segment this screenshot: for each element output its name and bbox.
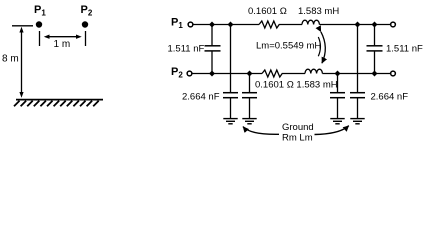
svg-text:8 m: 8 m (2, 54, 19, 65)
svg-text:Lm=0.5549 mH: Lm=0.5549 mH (256, 40, 321, 51)
svg-text:P1: P1 (34, 4, 46, 18)
svg-text:P1: P1 (171, 17, 183, 31)
svg-text:1.511 nF: 1.511 nF (386, 44, 423, 55)
svg-text:P2: P2 (81, 4, 93, 18)
svg-text:1 m: 1 m (54, 39, 71, 50)
svg-text:2.664 nF: 2.664 nF (182, 91, 220, 102)
svg-text:0.1601 Ω 1.583 mH: 0.1601 Ω 1.583 mH (255, 79, 338, 90)
svg-text:P2: P2 (171, 66, 183, 80)
svg-text:1.583 mH: 1.583 mH (298, 6, 339, 17)
svg-text:Ground: Ground (282, 122, 314, 133)
svg-text:2.664 nF: 2.664 nF (371, 91, 409, 102)
svg-text:0.1601 Ω: 0.1601 Ω (248, 6, 287, 17)
svg-text:Rm Lm: Rm Lm (282, 132, 313, 142)
svg-text:1.511 nF: 1.511 nF (168, 44, 205, 55)
